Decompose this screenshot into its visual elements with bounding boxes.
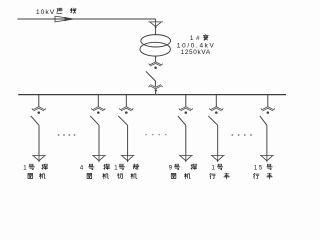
drawout contact feeder F4 [179, 107, 193, 114]
switch blade feeder F6 [260, 116, 267, 125]
drawout contact feeder F1 [32, 107, 46, 114]
label: transformer 1# 10/0.4kV 1250kVA [177, 34, 215, 56]
wire: feeder F5 down [217, 125, 219, 155]
continuation dots group 2 [145, 134, 166, 136]
load arrow feeder F3 [121, 156, 135, 163]
drawout contact feeder F5 [209, 107, 223, 114]
svg-text:10kV: 10kV [36, 9, 55, 16]
svg-text:1250kVA: 1250kVA [181, 49, 211, 56]
wire: feeder F6 down [266, 125, 268, 155]
continuation dots group 1 [58, 134, 76, 136]
load arrow feeder F5 [211, 156, 225, 163]
switch blade feeder F3 [118, 116, 127, 125]
breaker blade (incoming) [146, 71, 156, 86]
transformer T1 two-winding [140, 35, 171, 57]
busbar 0.4kV [18, 94, 286, 96]
wire: feeder F5 tap from bus [215, 95, 217, 107]
label: feeder F6 no.15 crane [253, 164, 272, 179]
wire: feeder F4 down [185, 125, 187, 155]
wire: feeder F4 tap from bus [185, 95, 187, 107]
wire: feeder F1 tap from bus [38, 95, 40, 107]
dot and tick to bus (incoming) [155, 89, 157, 94]
wire: feeder F3 down [127, 125, 129, 155]
switch blade feeder F4 [178, 116, 186, 125]
wire: feeder F1 down [38, 125, 40, 155]
wire: feeder F2 down [98, 125, 100, 155]
drawout contact lower (incoming, at bus) [149, 85, 163, 89]
label: feeder F5 no.1 crane [210, 164, 230, 179]
load arrow feeder F4 [179, 156, 193, 163]
label: 10kV incoming line text [36, 8, 76, 16]
load arrow feeder F6 [260, 156, 274, 163]
wire: transformer secondary [155, 56, 157, 62]
drawout contact feeder F3 [119, 107, 133, 114]
label: feeder F3 no.1 straightening cutter [114, 164, 139, 179]
label: feeder F2 no.4 mesh welder [80, 164, 109, 179]
continuation dots group 3 [231, 134, 252, 136]
drawout contact feeder F6 [261, 107, 275, 114]
wire: feeder F6 tap from bus [267, 95, 269, 107]
label: feeder F1 no.1 mesh welder [23, 164, 47, 179]
wire: feeder F2 tap from bus [97, 95, 99, 107]
load arrow feeder F1 [32, 156, 46, 163]
wire: 10kV incoming overhead line [18, 18, 156, 20]
switch blade feeder F5 [208, 116, 217, 125]
switch blade feeder F2 [90, 116, 99, 125]
arrow: incoming feed direction arrow [55, 16, 73, 23]
wire: to transformer primary [155, 28, 157, 35]
cable terminal arrow above transformer [148, 22, 163, 29]
switch blade feeder F1 [31, 116, 39, 125]
drawout contact feeder F2 [91, 107, 105, 114]
drawout contact upper (incoming breaker) [149, 62, 163, 69]
load arrow feeder F2 [92, 156, 106, 163]
label: feeder F4 no.9 mesh welder [169, 164, 197, 179]
wire: feeder F3 tap from bus [125, 95, 127, 107]
wire: drop from line corner [155, 19, 157, 22]
